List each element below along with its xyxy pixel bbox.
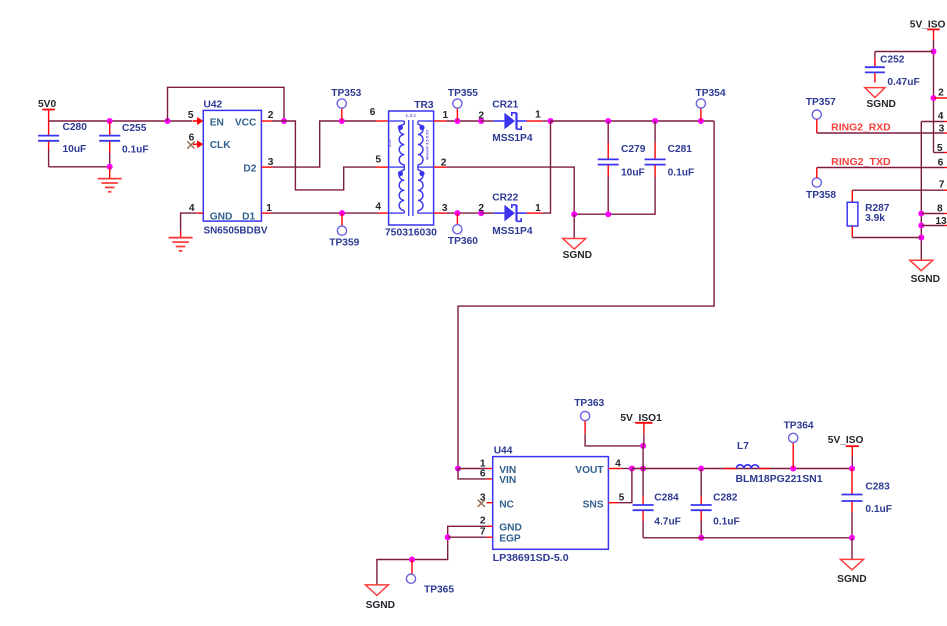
svg-text:SGND: SGND <box>366 600 395 611</box>
svg-text:CR21: CR21 <box>492 100 518 111</box>
svg-text:TP363: TP363 <box>574 398 604 409</box>
svg-text:8: 8 <box>937 204 943 215</box>
svg-text:2: 2 <box>478 110 484 121</box>
svg-text:750316030: 750316030 <box>385 227 437 238</box>
svg-text:400mW 4.5-5.5V: 400mW 4.5-5.5V <box>425 130 430 161</box>
svg-text:4: 4 <box>615 458 621 469</box>
svg-text:MSS1P4: MSS1P4 <box>492 226 533 237</box>
svg-text:RING2_RXD: RING2_RXD <box>831 123 891 134</box>
svg-text:6: 6 <box>938 157 944 168</box>
svg-text:3.3V: 3.3V <box>387 139 392 148</box>
svg-text:4: 4 <box>375 201 381 212</box>
svg-text:2: 2 <box>938 88 944 99</box>
svg-text:5: 5 <box>375 154 381 165</box>
svg-text:4: 4 <box>189 203 195 214</box>
svg-text:VIN: VIN <box>499 475 516 486</box>
svg-text:2: 2 <box>441 157 447 168</box>
svg-text:SN6505BDBV: SN6505BDBV <box>204 226 268 237</box>
svg-text:6: 6 <box>370 107 376 118</box>
svg-text:10uF: 10uF <box>621 168 645 179</box>
svg-text:C279: C279 <box>621 144 646 155</box>
svg-text:U44: U44 <box>494 446 513 457</box>
svg-text:2: 2 <box>478 203 484 214</box>
svg-text:TP365: TP365 <box>424 584 454 595</box>
svg-text:U42: U42 <box>204 100 223 111</box>
svg-text:C281: C281 <box>668 144 693 155</box>
svg-text:GND: GND <box>499 523 522 534</box>
svg-text:CLK: CLK <box>210 140 232 151</box>
svg-text:1: 1 <box>266 203 272 214</box>
svg-text:SGND: SGND <box>866 99 895 110</box>
svg-text:0.1uF: 0.1uF <box>668 168 695 179</box>
svg-text:C255: C255 <box>122 123 147 134</box>
svg-text:TP353: TP353 <box>331 88 361 99</box>
svg-text:C283: C283 <box>865 482 890 493</box>
svg-text:VOUT: VOUT <box>575 465 604 476</box>
svg-text:5: 5 <box>188 110 194 121</box>
svg-text:6: 6 <box>480 469 486 480</box>
svg-text:7: 7 <box>480 526 486 537</box>
svg-text:SGND: SGND <box>911 274 940 285</box>
svg-text:TP359: TP359 <box>329 238 359 249</box>
svg-text:TP354: TP354 <box>695 88 725 99</box>
svg-text:7: 7 <box>939 180 945 191</box>
svg-text:C284: C284 <box>654 493 679 504</box>
svg-text:TP355: TP355 <box>448 88 478 99</box>
svg-text:2: 2 <box>268 110 274 121</box>
svg-text:MSS1P4: MSS1P4 <box>492 133 533 144</box>
svg-text:SGND: SGND <box>563 250 592 261</box>
svg-text:4: 4 <box>938 111 944 122</box>
svg-text:0.1uF: 0.1uF <box>122 145 149 156</box>
svg-text:BLM18PG221SN1: BLM18PG221SN1 <box>736 474 823 485</box>
svg-text:3: 3 <box>939 124 945 135</box>
svg-text:13: 13 <box>935 216 947 227</box>
svg-text:RING2_TXD: RING2_TXD <box>831 157 891 168</box>
svg-text:10uF: 10uF <box>63 144 87 155</box>
svg-text:TP364: TP364 <box>784 420 814 431</box>
svg-text:0.1uF: 0.1uF <box>713 516 740 527</box>
svg-text:EN: EN <box>210 117 224 128</box>
svg-text:1: 1 <box>443 110 449 121</box>
svg-text:LP38691SD-5.0: LP38691SD-5.0 <box>493 553 569 564</box>
svg-text:C282: C282 <box>713 493 738 504</box>
svg-text:4.7uF: 4.7uF <box>654 516 681 527</box>
svg-text:TP357: TP357 <box>806 97 836 108</box>
svg-text:1: 1 <box>535 203 541 214</box>
svg-text:2: 2 <box>480 515 486 526</box>
svg-text:D1: D1 <box>242 211 255 222</box>
svg-text:C280: C280 <box>63 122 88 133</box>
svg-text:C252: C252 <box>880 55 905 66</box>
svg-text:5V_ISO: 5V_ISO <box>828 435 864 446</box>
svg-text:3.9k: 3.9k <box>865 213 885 224</box>
svg-text:0.47uF: 0.47uF <box>887 77 919 88</box>
svg-text:CR22: CR22 <box>492 193 518 204</box>
svg-text:TP358: TP358 <box>806 190 836 201</box>
svg-text:3: 3 <box>268 157 274 168</box>
svg-text:0.1uF: 0.1uF <box>865 504 892 515</box>
svg-text:D2: D2 <box>243 163 256 174</box>
svg-text:1.3:1: 1.3:1 <box>406 113 417 118</box>
svg-text:GND: GND <box>210 211 233 222</box>
svg-text:L7: L7 <box>737 441 749 452</box>
svg-text:5V0: 5V0 <box>38 99 56 110</box>
svg-text:SGND: SGND <box>837 574 866 585</box>
svg-text:TP360: TP360 <box>448 236 478 247</box>
svg-text:EGP: EGP <box>499 533 521 544</box>
svg-text:VCC: VCC <box>235 117 257 128</box>
svg-text:NC: NC <box>499 500 514 511</box>
svg-text:SNS: SNS <box>583 500 604 511</box>
svg-text:1: 1 <box>535 110 541 121</box>
svg-text:TR3: TR3 <box>414 100 434 111</box>
svg-text:5: 5 <box>937 143 943 154</box>
